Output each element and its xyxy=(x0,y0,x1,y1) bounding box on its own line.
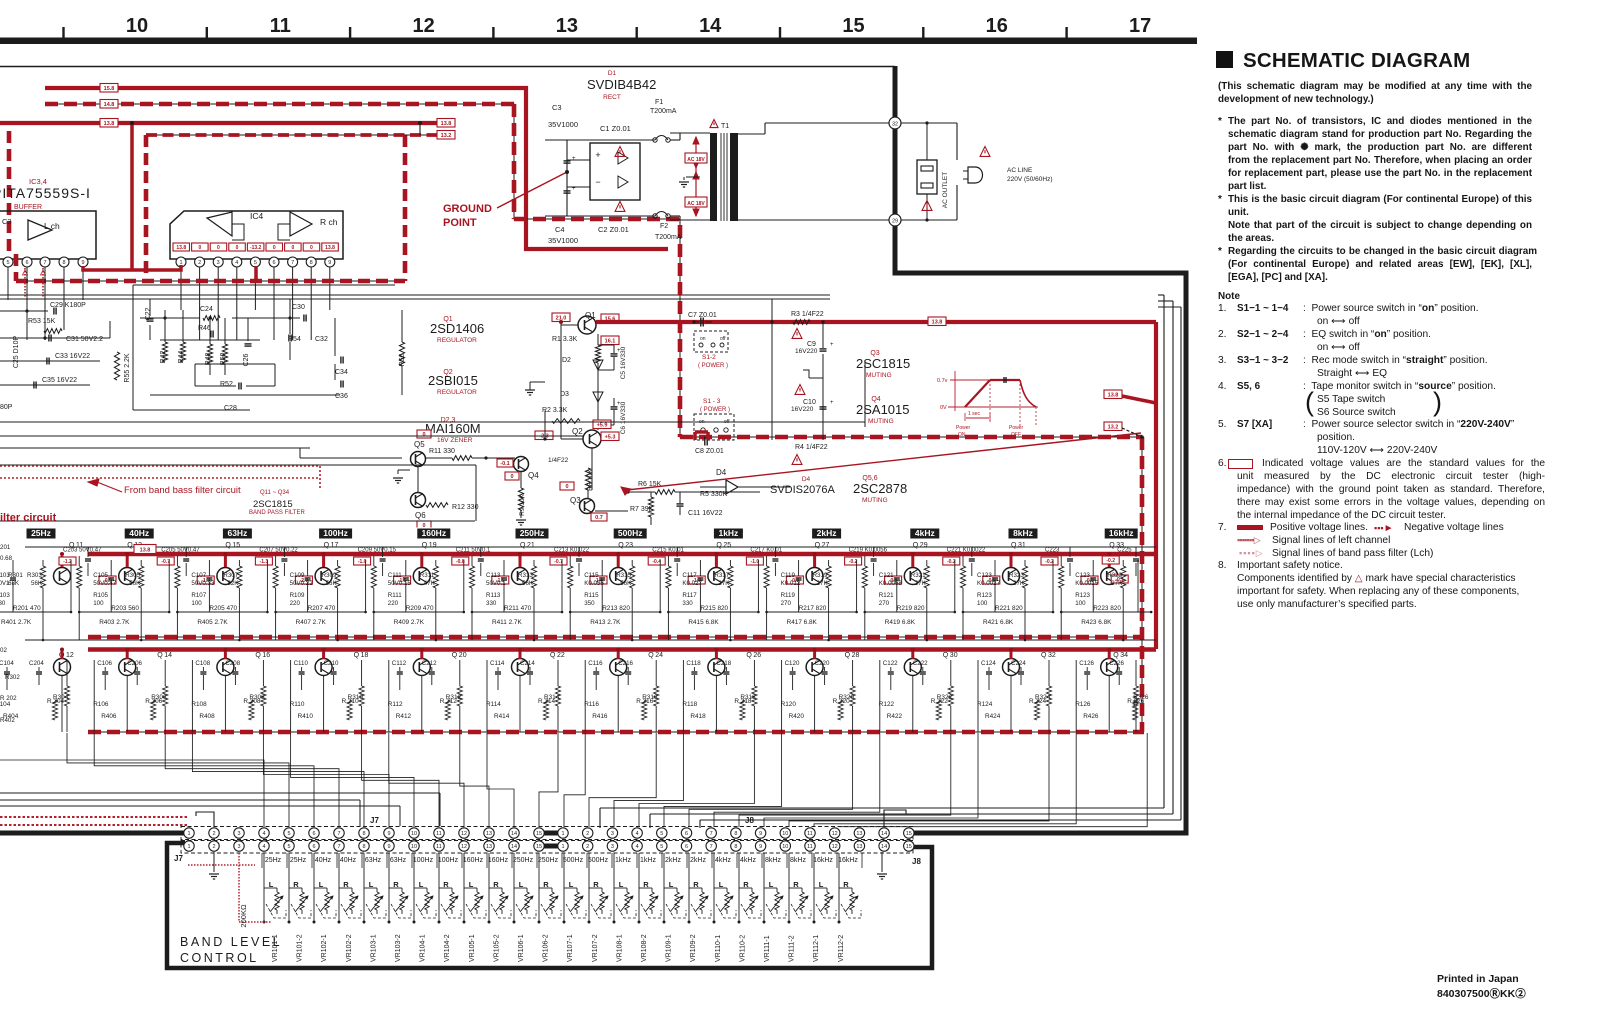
svg-text:6: 6 xyxy=(272,260,275,266)
svg-text:VR112-1: VR112-1 xyxy=(813,935,820,962)
svg-text:Q: Q xyxy=(1041,652,1047,659)
svg-text:F1: F1 xyxy=(655,99,663,106)
svg-text:C126: C126 xyxy=(1079,660,1094,667)
svg-text:R203 560: R203 560 xyxy=(111,605,139,612)
svg-text:C112: C112 xyxy=(392,660,407,667)
svg-text:250Hz: 250Hz xyxy=(538,857,559,864)
svg-text:C9: C9 xyxy=(807,341,816,348)
svg-text:10: 10 xyxy=(411,831,417,837)
svg-text:R3 1/4F22: R3 1/4F22 xyxy=(791,311,824,318)
svg-text:25Hz: 25Hz xyxy=(265,857,282,864)
svg-text:16: 16 xyxy=(262,652,270,659)
svg-text:+: + xyxy=(617,348,621,354)
svg-text:2kHz: 2kHz xyxy=(817,528,837,538)
svg-text:R423 6.8K: R423 6.8K xyxy=(1081,619,1112,626)
svg-text:K0.027: K0.027 xyxy=(682,580,702,587)
svg-text:2: 2 xyxy=(212,844,215,850)
svg-text:4kHz: 4kHz xyxy=(915,528,935,538)
svg-text:C6 16V330: C6 16V330 xyxy=(620,401,627,434)
svg-text:VR102-1: VR102-1 xyxy=(321,934,328,962)
svg-text:R108: R108 xyxy=(191,701,207,708)
svg-text:15: 15 xyxy=(906,831,912,837)
svg-text:R114: R114 xyxy=(486,701,501,708)
svg-text:22: 22 xyxy=(557,652,565,659)
svg-text:7: 7 xyxy=(710,844,713,850)
svg-text:C104: C104 xyxy=(0,660,14,667)
svg-text:C114: C114 xyxy=(490,660,505,667)
svg-text:R422: R422 xyxy=(887,713,903,720)
svg-text:R413 2.7K: R413 2.7K xyxy=(590,619,621,626)
svg-text:Q: Q xyxy=(1113,652,1119,659)
svg-text:MUTING: MUTING xyxy=(866,372,892,379)
svg-text:35V1000: 35V1000 xyxy=(548,120,578,129)
svg-text:VR111-1: VR111-1 xyxy=(764,935,771,962)
svg-text:13.2: 13.2 xyxy=(441,133,452,139)
svg-text:34: 34 xyxy=(1120,652,1128,659)
svg-text:C221 K0.0022: C221 K0.0022 xyxy=(947,548,986,554)
svg-text:16V220: 16V220 xyxy=(795,348,818,355)
svg-text:8: 8 xyxy=(734,831,737,837)
svg-text:R118: R118 xyxy=(682,701,697,708)
svg-text:C207 50V0.22: C207 50V0.22 xyxy=(259,548,298,554)
svg-text:K0.0027: K0.0027 xyxy=(977,580,1001,587)
svg-text:6: 6 xyxy=(25,260,28,266)
svg-text:BUFFER: BUFFER xyxy=(14,204,42,211)
svg-text:C107: C107 xyxy=(191,572,206,579)
svg-text:REGULATOR: REGULATOR xyxy=(437,389,477,396)
svg-text:0: 0 xyxy=(291,245,294,251)
svg-text:on: on xyxy=(700,336,706,342)
svg-text:C110: C110 xyxy=(294,660,309,667)
svg-text:+: + xyxy=(617,401,621,407)
svg-text:6: 6 xyxy=(685,831,688,837)
svg-text:12: 12 xyxy=(832,831,838,837)
svg-text:0: 0 xyxy=(510,474,513,480)
svg-text:C34: C34 xyxy=(335,369,348,376)
svg-text:2SC1815: 2SC1815 xyxy=(856,356,910,371)
svg-text:K0.0068: K0.0068 xyxy=(879,580,903,587)
svg-text:13.8: 13.8 xyxy=(932,320,943,326)
svg-text:270: 270 xyxy=(879,600,890,607)
svg-text:220V (50/60Hz): 220V (50/60Hz) xyxy=(1007,176,1053,183)
svg-text:-0.2: -0.2 xyxy=(1106,558,1115,564)
svg-text:32: 32 xyxy=(892,122,898,128)
svg-text:13.8: 13.8 xyxy=(104,121,115,127)
svg-text:8: 8 xyxy=(362,844,365,850)
svg-text:VR105-2: VR105-2 xyxy=(493,934,500,962)
svg-text:Q11 ~ Q34: Q11 ~ Q34 xyxy=(260,490,290,496)
svg-text:C120: C120 xyxy=(785,660,800,667)
svg-text:13: 13 xyxy=(856,831,862,837)
svg-text:Q: Q xyxy=(157,652,163,659)
svg-text:AC 18V: AC 18V xyxy=(687,201,705,207)
svg-text:R116: R116 xyxy=(584,701,599,708)
svg-text:IC4: IC4 xyxy=(250,211,264,221)
svg-text:C105: C105 xyxy=(93,572,108,579)
svg-text:29: 29 xyxy=(892,219,898,225)
svg-text:0: 0 xyxy=(217,245,220,251)
svg-text:SVDIB4B42: SVDIB4B42 xyxy=(587,77,656,92)
svg-text:Q: Q xyxy=(452,652,458,659)
svg-text:7: 7 xyxy=(43,260,46,266)
svg-text:C1 Z0.01: C1 Z0.01 xyxy=(600,124,631,133)
svg-text:16.1: 16.1 xyxy=(605,339,616,345)
svg-text:50V0.47: 50V0.47 xyxy=(93,580,117,587)
svg-text:VR106-2: VR106-2 xyxy=(543,934,550,962)
svg-text:2SC1815: 2SC1815 xyxy=(253,499,293,510)
svg-text:14: 14 xyxy=(881,831,887,837)
svg-text:7: 7 xyxy=(337,831,340,837)
svg-text:C214: C214 xyxy=(520,660,535,667)
svg-text:14: 14 xyxy=(511,831,517,837)
svg-text:R223 820: R223 820 xyxy=(1093,605,1121,612)
svg-text:J8: J8 xyxy=(745,816,754,825)
svg-text:MUTING: MUTING xyxy=(868,418,894,425)
svg-text:50V0.15: 50V0.15 xyxy=(388,580,412,587)
svg-text:R415 6.8K: R415 6.8K xyxy=(688,619,719,626)
svg-text:Q: Q xyxy=(422,542,428,549)
svg-text:MAI160M: MAI160M xyxy=(425,421,481,436)
svg-text:C8 Z0.01: C8 Z0.01 xyxy=(695,448,724,455)
svg-text:10: 10 xyxy=(782,844,788,850)
svg-text:C222: C222 xyxy=(913,660,928,667)
svg-text:R2 3.3K: R2 3.3K xyxy=(542,407,568,414)
svg-text:250Hz: 250Hz xyxy=(520,528,545,538)
svg-text:R211 470: R211 470 xyxy=(504,605,532,612)
svg-text:R217 820: R217 820 xyxy=(799,605,827,612)
svg-text:Q: Q xyxy=(225,542,231,549)
svg-text:9: 9 xyxy=(387,844,390,850)
svg-text:5: 5 xyxy=(287,831,290,837)
svg-text:4kHz: 4kHz xyxy=(740,857,756,864)
svg-text:R105: R105 xyxy=(93,592,108,599)
svg-text:27K: 27K xyxy=(718,580,730,587)
svg-text:R103: R103 xyxy=(0,592,10,599)
svg-text:R104: R104 xyxy=(0,701,11,708)
svg-text:R111: R111 xyxy=(388,592,402,599)
svg-text:13.8: 13.8 xyxy=(1108,393,1119,399)
svg-text:OFF: OFF xyxy=(1011,432,1021,438)
svg-text:15: 15 xyxy=(536,831,542,837)
svg-text:C223: C223 xyxy=(1045,548,1060,554)
svg-text:1kHz: 1kHz xyxy=(615,857,631,864)
svg-text:330: 330 xyxy=(682,600,693,607)
svg-text:35V1000: 35V1000 xyxy=(548,236,578,245)
svg-text:VR111-2: VR111-2 xyxy=(789,935,796,962)
svg-text:ON: ON xyxy=(958,432,966,438)
svg-text:12: 12 xyxy=(832,844,838,850)
svg-text:C28: C28 xyxy=(224,405,237,412)
svg-text:D4: D4 xyxy=(716,468,727,477)
svg-text:R113: R113 xyxy=(486,592,501,599)
svg-text:13: 13 xyxy=(556,15,578,37)
svg-text:BAND PASS FILTER: BAND PASS FILTER xyxy=(249,510,305,516)
svg-text:1: 1 xyxy=(187,844,190,850)
svg-text:R421 6.8K: R421 6.8K xyxy=(983,619,1014,626)
svg-text:C4: C4 xyxy=(555,225,565,234)
svg-text:D1: D1 xyxy=(608,70,617,77)
svg-text:C209 50V0.15: C209 50V0.15 xyxy=(358,548,397,554)
svg-text:201: 201 xyxy=(0,544,11,551)
svg-text:11: 11 xyxy=(270,15,291,37)
svg-text:R405 2.7K: R405 2.7K xyxy=(197,619,228,626)
svg-text:D2: D2 xyxy=(562,357,571,364)
svg-text:2SBI015: 2SBI015 xyxy=(428,373,478,388)
svg-text:REGULATOR: REGULATOR xyxy=(437,337,477,344)
svg-text:AC OUTLET: AC OUTLET xyxy=(942,172,949,209)
svg-text:100: 100 xyxy=(93,600,104,607)
svg-text:VR112-2: VR112-2 xyxy=(838,935,845,962)
svg-text:R302: R302 xyxy=(5,674,20,681)
svg-text:VR104-2: VR104-2 xyxy=(444,934,451,962)
svg-text:40Hz: 40Hz xyxy=(315,857,332,864)
svg-text:14: 14 xyxy=(511,844,517,850)
svg-text:Q5: Q5 xyxy=(414,440,425,449)
svg-text:AC LINE: AC LINE xyxy=(1007,167,1033,174)
svg-text:8: 8 xyxy=(62,260,65,266)
svg-text:R115: R115 xyxy=(584,592,599,599)
svg-text:C123: C123 xyxy=(1075,572,1090,579)
svg-text:17: 17 xyxy=(331,542,339,549)
svg-text:330: 330 xyxy=(0,600,6,607)
svg-text:C118: C118 xyxy=(686,660,701,667)
svg-text:56K: 56K xyxy=(326,580,338,587)
svg-text:C215 K0.01: C215 K0.01 xyxy=(652,548,684,554)
svg-text:C31 50V2.2: C31 50V2.2 xyxy=(66,336,103,343)
svg-text:63Hz: 63Hz xyxy=(227,528,247,538)
svg-text:VR103-1: VR103-1 xyxy=(370,934,377,962)
svg-text:11: 11 xyxy=(436,844,442,850)
svg-text:R 202: R 202 xyxy=(0,695,17,702)
svg-text:28: 28 xyxy=(852,652,860,659)
svg-text:+: + xyxy=(572,156,576,162)
svg-text:16kHz: 16kHz xyxy=(813,857,833,864)
svg-text:SVDIS2076A: SVDIS2076A xyxy=(770,484,835,496)
svg-text:BAND LEVEL: BAND LEVEL xyxy=(180,935,282,949)
svg-text:Q: Q xyxy=(550,652,556,659)
svg-text:270: 270 xyxy=(781,600,792,607)
svg-text:J7: J7 xyxy=(174,854,183,863)
svg-text:C212: C212 xyxy=(422,660,437,667)
svg-text:50V0.22: 50V0.22 xyxy=(290,580,314,587)
svg-text:Q: Q xyxy=(1109,542,1115,549)
svg-text:18: 18 xyxy=(361,652,369,659)
svg-text:15.8: 15.8 xyxy=(104,86,115,92)
svg-text:26: 26 xyxy=(753,652,761,659)
svg-text:13.8: 13.8 xyxy=(176,245,186,251)
svg-text:25: 25 xyxy=(723,542,731,549)
svg-text:R ch: R ch xyxy=(320,217,338,227)
svg-text:C219 K0.0056: C219 K0.0056 xyxy=(849,548,888,554)
svg-text:13.8: 13.8 xyxy=(441,121,452,127)
svg-text:C119: C119 xyxy=(781,572,796,579)
svg-text:R403 2.7K: R403 2.7K xyxy=(99,619,130,626)
svg-text:C3: C3 xyxy=(2,217,12,226)
svg-text:C210: C210 xyxy=(324,660,339,667)
svg-text:56K: 56K xyxy=(522,580,534,587)
svg-text:Q: Q xyxy=(746,652,752,659)
svg-text:C208: C208 xyxy=(225,660,240,667)
svg-text:R122: R122 xyxy=(879,701,895,708)
svg-text:VR107-1: VR107-1 xyxy=(567,934,574,962)
svg-text:0.7: 0.7 xyxy=(595,515,603,521)
svg-text:VR110-2: VR110-2 xyxy=(739,935,746,962)
svg-text:5: 5 xyxy=(660,844,663,850)
svg-text:R52: R52 xyxy=(220,381,233,388)
svg-text:9: 9 xyxy=(328,260,331,266)
svg-text:19: 19 xyxy=(429,542,437,549)
svg-text:Power: Power xyxy=(1009,425,1024,431)
svg-text:200KΩ: 200KΩ xyxy=(239,904,248,928)
svg-text:C2 Z0.01: C2 Z0.01 xyxy=(598,225,629,234)
svg-text:40Hz: 40Hz xyxy=(129,528,149,538)
svg-text:R124: R124 xyxy=(977,701,993,708)
svg-text:C3: C3 xyxy=(552,103,562,112)
svg-text:7: 7 xyxy=(337,844,340,850)
svg-text:1 sec: 1 sec xyxy=(968,411,980,417)
svg-text:16kHz: 16kHz xyxy=(1109,528,1134,538)
svg-text:Q: Q xyxy=(845,652,851,659)
svg-text:C109: C109 xyxy=(290,572,305,579)
svg-text:Q: Q xyxy=(943,652,949,659)
svg-text:VR104-1: VR104-1 xyxy=(420,934,427,962)
svg-text:C224: C224 xyxy=(1011,660,1026,667)
svg-text:R410: R410 xyxy=(298,713,314,720)
svg-text:C124: C124 xyxy=(981,660,996,667)
svg-text:3: 3 xyxy=(217,260,220,266)
svg-text:C206: C206 xyxy=(127,660,142,667)
svg-text:1: 1 xyxy=(561,831,564,837)
svg-text:Q: Q xyxy=(354,652,360,659)
svg-text:R46: R46 xyxy=(198,325,211,332)
svg-text:VR108-2: VR108-2 xyxy=(641,934,648,962)
svg-text:3: 3 xyxy=(611,831,614,837)
svg-text:5: 5 xyxy=(254,260,257,266)
svg-text:R424: R424 xyxy=(985,713,1001,720)
svg-text:R419 6.8K: R419 6.8K xyxy=(885,619,916,626)
svg-text:F2: F2 xyxy=(660,223,668,230)
svg-text:off: off xyxy=(720,336,726,342)
svg-text:C33 16V22: C33 16V22 xyxy=(55,353,90,360)
svg-text:R201 470: R201 470 xyxy=(13,605,41,612)
svg-text:32: 32 xyxy=(1048,652,1056,659)
svg-text:R126: R126 xyxy=(1075,701,1091,708)
svg-text:From band bass filter circuit: From band bass filter circuit xyxy=(124,485,241,496)
svg-text:+5.3: +5.3 xyxy=(605,435,616,441)
svg-text:500Hz: 500Hz xyxy=(618,528,643,538)
svg-text:Q: Q xyxy=(648,652,654,659)
svg-text:7: 7 xyxy=(291,260,294,266)
svg-text:C113: C113 xyxy=(486,572,501,579)
svg-text:C225: C225 xyxy=(1117,548,1132,554)
svg-text:40Hz: 40Hz xyxy=(340,857,357,864)
svg-text:S1 - 3: S1 - 3 xyxy=(703,398,721,405)
svg-text:1: 1 xyxy=(561,844,564,850)
svg-text:2: 2 xyxy=(198,260,201,266)
svg-text:( POWER ): ( POWER ) xyxy=(700,407,730,413)
svg-text:160Hz: 160Hz xyxy=(463,857,484,864)
svg-text:21: 21 xyxy=(527,542,535,549)
svg-text:ilter circuit: ilter circuit xyxy=(0,512,57,524)
svg-text:13: 13 xyxy=(486,831,492,837)
svg-text:−: − xyxy=(595,177,600,187)
svg-text:47K: 47K xyxy=(424,580,436,587)
svg-text:27K: 27K xyxy=(1013,580,1025,587)
svg-text:J8: J8 xyxy=(912,857,921,866)
svg-text:56K: 56K xyxy=(129,580,141,587)
svg-text:C216: C216 xyxy=(618,660,633,667)
svg-text:C115: C115 xyxy=(584,572,599,579)
svg-text:15: 15 xyxy=(842,15,864,37)
svg-text:02: 02 xyxy=(0,647,7,654)
svg-text:C217 K0.01: C217 K0.01 xyxy=(750,548,782,554)
svg-text:R123: R123 xyxy=(1075,592,1090,599)
svg-text:56K: 56K xyxy=(620,580,632,587)
svg-text:D4: D4 xyxy=(802,476,811,483)
svg-text:100: 100 xyxy=(1075,600,1086,607)
svg-text:2kHz: 2kHz xyxy=(665,857,681,864)
svg-text:C30: C30 xyxy=(292,304,305,311)
svg-text:5: 5 xyxy=(660,831,663,837)
svg-text:80P: 80P xyxy=(0,404,13,411)
svg-text:VR102-2: VR102-2 xyxy=(346,934,353,962)
svg-text:R120: R120 xyxy=(781,701,797,708)
svg-text:13: 13 xyxy=(856,844,862,850)
svg-text:+: + xyxy=(830,342,834,348)
svg-text:4: 4 xyxy=(262,831,265,837)
svg-text:R402: R402 xyxy=(0,717,15,724)
svg-text:3: 3 xyxy=(611,844,614,850)
svg-text:R207 470: R207 470 xyxy=(308,605,336,612)
svg-text:R213 820: R213 820 xyxy=(602,605,630,612)
svg-text:R411 2.7K: R411 2.7K xyxy=(492,619,522,626)
svg-text:30: 30 xyxy=(950,652,958,659)
svg-text:27: 27 xyxy=(822,542,830,549)
svg-text:14: 14 xyxy=(699,15,722,37)
svg-text:13.8: 13.8 xyxy=(325,245,335,251)
svg-text:27K: 27K xyxy=(817,580,829,587)
svg-text:6: 6 xyxy=(312,844,315,850)
svg-text:100: 100 xyxy=(191,600,202,607)
svg-text:Q: Q xyxy=(1011,542,1017,549)
svg-text:R418: R418 xyxy=(690,713,706,720)
svg-text:63Hz: 63Hz xyxy=(390,857,407,864)
svg-text:13: 13 xyxy=(486,844,492,850)
svg-text:C205 50V0.47: C205 50V0.47 xyxy=(161,548,200,554)
svg-text:4: 4 xyxy=(636,831,639,837)
svg-text:-13.2: -13.2 xyxy=(250,245,262,251)
svg-text:T200mA: T200mA xyxy=(655,234,682,241)
svg-text:R117: R117 xyxy=(682,592,697,599)
svg-text:R406: R406 xyxy=(101,713,117,720)
svg-text:9: 9 xyxy=(81,260,84,266)
svg-text:R219 820: R219 820 xyxy=(897,605,925,612)
svg-text:56K: 56K xyxy=(31,580,43,587)
svg-text:2kHz: 2kHz xyxy=(690,857,706,864)
svg-text:C106: C106 xyxy=(97,660,112,667)
svg-text:0: 0 xyxy=(236,245,239,251)
svg-text:Q: Q xyxy=(255,652,261,659)
svg-text:100Hz: 100Hz xyxy=(323,528,348,538)
svg-text:160Hz: 160Hz xyxy=(488,857,509,864)
svg-text:K0.012: K0.012 xyxy=(781,580,801,587)
svg-text:31: 31 xyxy=(1018,542,1026,549)
svg-text:160Hz: 160Hz xyxy=(422,528,447,538)
svg-text:GROUND: GROUND xyxy=(443,203,492,215)
svg-text:PITA75559S-I: PITA75559S-I xyxy=(0,185,91,201)
svg-text:R401 2.7K: R401 2.7K xyxy=(1,619,32,626)
svg-text:R53 15K: R53 15K xyxy=(28,318,56,325)
